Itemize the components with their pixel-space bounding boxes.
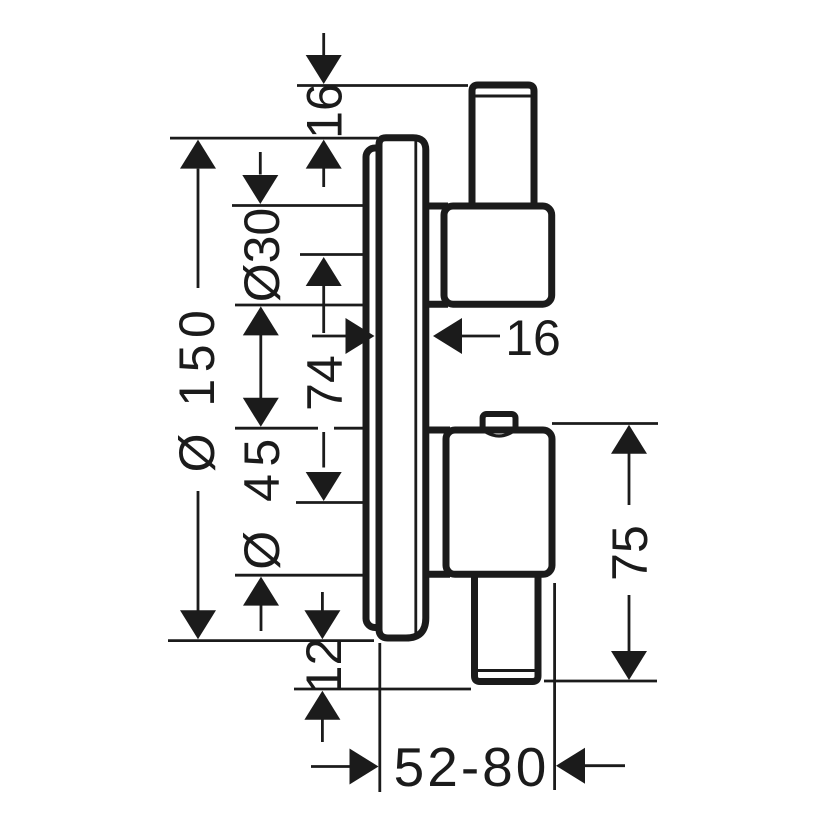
dim D30: upper arrow stem	[259, 152, 262, 175]
dim D150: line upper segment	[197, 169, 200, 288]
dim 74: line lower segment	[322, 432, 325, 468]
top handle body	[444, 206, 552, 304]
handle 2 centerline extension	[296, 501, 364, 504]
svg-text:12: 12	[296, 638, 352, 694]
dim D30/D45 shared arrow stem	[259, 335, 262, 398]
arrow right at plate front face (16 right)	[346, 318, 375, 354]
plate bottom extension line	[168, 639, 374, 642]
arrow down at handle2 centerline (74)	[306, 472, 342, 501]
dim 12: lower arrow stem	[321, 720, 324, 743]
arrowheads	[180, 55, 647, 785]
handle 1 centerline extension	[300, 253, 364, 256]
dim 16 right: right arrow stem	[460, 335, 501, 338]
arrow up at plate top (16-top)	[306, 140, 342, 169]
arrow up at 75 upper tick	[611, 425, 647, 454]
dim 16 top: arrow stem above	[322, 33, 325, 56]
dim 16 top: extension line at stem top	[297, 84, 468, 87]
top handle body connector lines	[425, 206, 448, 304]
escutcheon inner edge line	[414, 142, 417, 635]
escutcheon front slab	[379, 138, 426, 638]
svg-text:74: 74	[297, 355, 353, 411]
arrow left at plate back face (16 right)	[433, 318, 462, 354]
escutcheon back slab	[366, 148, 392, 628]
svg-text:Ø 45: Ø 45	[234, 431, 290, 569]
arrow up at stem bottom line (12)	[304, 691, 340, 720]
dim 12: upper arrow stem	[321, 592, 324, 612]
svg-text:Ø 150: Ø 150	[169, 304, 225, 473]
dim D45: lower arrow stem	[260, 606, 263, 632]
dim 75: lower tick line	[544, 680, 657, 683]
bottom handle stem	[475, 570, 539, 682]
svg-text:16: 16	[505, 310, 561, 366]
top handle stem inner line	[476, 95, 530, 98]
svg-text:75: 75	[602, 525, 658, 581]
arrow right at 52-80 left line	[350, 749, 379, 785]
arrow up at handle1 centerline (74)	[306, 257, 342, 286]
product outlines	[366, 85, 552, 682]
dim 52-80: left arrow stem	[311, 765, 350, 768]
arrow up at D30 lower line	[243, 306, 279, 335]
plate top extension line	[170, 137, 378, 140]
dim D30: lower extension line	[235, 304, 364, 307]
arrow up at D45 lower line	[243, 577, 279, 606]
dim 75: line lower segment	[628, 595, 631, 653]
dim 52-80: right arrow stem	[585, 764, 625, 767]
bottom handle stem inner line	[478, 669, 534, 672]
svg-text:52-80: 52-80	[394, 736, 550, 798]
dim 75: line upper segment	[628, 453, 631, 505]
dim 52-80: right extension line	[553, 583, 556, 790]
dimension labels	[169, 83, 658, 798]
arrow down at 75 lower tick	[611, 651, 647, 680]
svg-text:16: 16	[297, 83, 353, 139]
dim 74: line upper segment	[322, 286, 325, 333]
dim 16 top: lower arrow stem	[322, 168, 325, 187]
bottom handle body connector lines	[425, 430, 450, 574]
svg-text:Ø30: Ø30	[234, 208, 290, 303]
dim 75: upper tick line	[552, 422, 658, 425]
dimensions	[168, 33, 658, 792]
arrow down at plate bottom (12)	[304, 610, 340, 639]
arrow up at plate top (D150)	[180, 140, 216, 169]
bottom handle tab	[483, 414, 516, 439]
top handle stem	[472, 85, 534, 208]
dim 16 right: left arrow stem	[312, 335, 351, 338]
dim D45: lower extension line	[235, 574, 364, 577]
dim D30: upper extension line	[232, 204, 364, 207]
arrow left at 52-80 right line	[556, 748, 585, 784]
dim D45: upper extension line	[235, 427, 364, 430]
dim D150: line lower segment	[197, 491, 200, 611]
arrow down at D30 upper line	[242, 175, 278, 204]
dim 52-80: left extension line	[378, 643, 381, 792]
arrow down at plate bottom (D150)	[180, 610, 216, 639]
bottom handle body	[446, 430, 552, 574]
dim 12: lower extension line	[294, 688, 471, 691]
bottom handle tab arc	[487, 433, 512, 437]
arrow down at 16-top upper line	[306, 55, 342, 84]
arrow down at D45 upper line	[243, 398, 279, 427]
